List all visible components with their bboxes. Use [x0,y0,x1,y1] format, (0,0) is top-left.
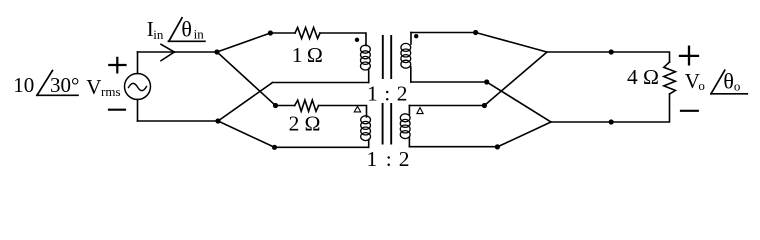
wire R1 to transformer T1 primary top [320,33,366,46]
wire T1 primary bottom return to vertex C [273,82,369,84]
node B junction dot [273,103,278,108]
node load bottom dot [609,119,614,124]
wire diagonal sec2 top to load top vertex [484,52,547,106]
wire R2 to transformer T2 primary top [319,106,367,118]
polarity triangle mark T2 secondary [417,108,423,114]
wire diagonal T to node B [217,52,276,106]
node secondary2 top dot [482,103,487,108]
polarity dot mark T1 primary [355,38,359,42]
svg-text:rms: rms [101,84,121,99]
transformer T1 core bars [383,36,391,78]
wire top horizontal to node T [138,51,218,53]
svg-text:2: 2 [289,111,300,135]
wire node A to resistor R1 [270,32,295,34]
svg-text:Ω: Ω [305,111,321,135]
svg-text:in: in [194,27,205,42]
angle symbol of Vo label [711,70,747,94]
wire source top vertical [137,52,139,74]
polarity triangle mark T2 primary [354,106,360,112]
node secondary1 bottom dot [484,79,489,84]
wire source bottom vertical [137,100,139,122]
resistor R2 2 ohm zigzag [295,100,319,111]
transformer T2 primary winding [361,116,371,148]
wire load bottom rail [551,94,670,122]
wire diagonal T to node A [217,33,270,52]
sine symbol inside source [129,83,147,90]
wire diagonal sec1 bottom to load bottom vertex [487,82,551,122]
minus sign at source [109,109,125,111]
angle symbol of Iin label [168,18,205,42]
wire 2 ohm branch node B to resistor R2 [276,105,295,107]
wire load top rail [547,52,670,62]
node secondary2 bottom dot [495,144,500,149]
svg-text:o: o [698,78,705,93]
resistor RL 4 ohm zigzag [664,62,676,94]
node L junction dot [215,118,220,123]
resistor R1 1 ohm zigzag [295,28,320,39]
svg-text:1: 1 [292,43,303,67]
svg-text:θ: θ [723,69,734,94]
transformer T1 primary winding [361,45,371,82]
plus sign at source [109,58,125,73]
svg-text:Ω: Ω [307,43,323,67]
svg-text:1:2: 1:2 [367,82,407,106]
wire T1 secondary top lead [411,32,476,34]
wire T2 secondary bottom lead [409,146,497,148]
wire T2 primary bottom return to node D [275,146,369,148]
wire T1 secondary bottom lead [411,81,487,83]
angle symbol of source phasor 30deg [37,71,78,96]
svg-text:10: 10 [13,73,34,97]
svg-text:1:2: 1:2 [367,147,410,171]
node load top dot [609,49,614,54]
svg-text:V: V [86,75,101,99]
polarity dot mark T1 secondary [414,34,418,38]
svg-text:o: o [734,78,741,93]
transformer T1 secondary winding [401,33,411,83]
svg-text:in: in [153,27,164,42]
current arrow head Iin [161,44,174,60]
wire T2 secondary top lead [409,105,484,107]
svg-text:4: 4 [627,65,638,89]
wire diagonal sec2 bottom to load bottom vertex [497,122,551,147]
svg-text:30°: 30° [50,73,79,97]
transformer T2 core bars [383,104,392,144]
svg-text:θ: θ [181,16,192,41]
node secondary1 top dot [473,30,478,35]
node A junction dot [268,30,273,35]
node D junction dot [272,145,277,150]
svg-text:Ω: Ω [643,65,659,89]
minus sign at load [681,110,698,112]
voltage source VS [125,74,151,100]
node T junction dot [214,49,219,54]
wire diagonal sec1 top to load top vertex [476,33,547,53]
wire bottom horizontal to node L [138,120,219,122]
transformer T2 secondary winding [400,106,410,147]
plus sign at load [680,47,698,65]
wire diagonal L to node D [218,121,275,147]
wire diagonal L to vertex C [218,83,273,122]
